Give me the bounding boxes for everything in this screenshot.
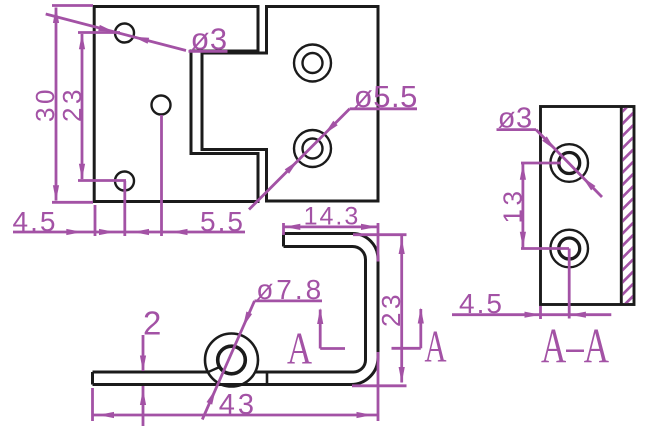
svg-text:5.5: 5.5: [200, 206, 245, 237]
section bottom hole outer: [550, 230, 588, 268]
profile left end cap: [91, 372, 94, 385]
dim 14.3 line: [284, 224, 378, 230]
dim 43 text: [219, 389, 257, 421]
dim 2 text: [143, 304, 161, 341]
dim 30 text: [30, 86, 60, 122]
profile flange end cap: [282, 234, 285, 247]
dim 13 text: [498, 188, 528, 224]
section arrow A right: [392, 308, 424, 349]
section arrow A left: [317, 308, 345, 349]
svg-text:23: 23: [57, 86, 87, 122]
dim 5.5 arrows: [133, 229, 188, 235]
dim 4.5 text: [13, 206, 58, 237]
dim 4.5 and 5.5 baseline: [13, 231, 245, 234]
section label A right: [425, 322, 447, 372]
dim 14.3 left extension: [282, 223, 285, 235]
dim 23 right text: [376, 291, 406, 327]
leaf 2 top countersunk hole inner: [303, 53, 323, 73]
leaf 1 bottom screw hole: [115, 172, 134, 191]
svg-text:4.5: 4.5: [13, 206, 58, 237]
dim 13 line: [520, 164, 526, 248]
svg-text:23: 23: [376, 291, 406, 327]
svg-text:4.5: 4.5: [459, 288, 504, 319]
svg-text:30: 30: [30, 86, 60, 122]
dim 2 lower line: [140, 386, 146, 426]
svg-text:14.3: 14.3: [304, 203, 361, 231]
profile outer surface: [93, 234, 379, 385]
dim 2 upper line: [140, 335, 146, 372]
dia 3 leader section: [536, 130, 602, 197]
dia 3 text section: [497, 102, 537, 134]
dim 23 right top extension: [353, 233, 407, 236]
dim 5.5 text: [200, 206, 245, 237]
dim 43 right extension: [377, 352, 380, 421]
knuckle outer circle: [205, 334, 258, 387]
svg-text:A: A: [287, 324, 312, 374]
svg-text:13: 13: [498, 188, 528, 224]
dia 3 text leaf1: [189, 22, 228, 57]
section plate outline: [541, 107, 635, 305]
dim 4.5 section baseline: [452, 313, 611, 316]
dim 23 top extension line: [78, 31, 120, 34]
profile strip top surface left: [93, 371, 208, 374]
svg-text:2: 2: [143, 304, 161, 341]
dim 23 right bottom extension: [352, 384, 407, 387]
hole extension for 4.5 section: [568, 249, 571, 319]
svg-text:A: A: [425, 322, 447, 372]
dim 30 top extension line: [52, 4, 93, 7]
section title A-A: [541, 318, 609, 374]
profile seam line: [266, 372, 269, 385]
leaf 2 bottom countersunk hole inner: [303, 139, 323, 159]
dim 4.5 arrows: [66, 229, 115, 235]
dia 7.8 text: [255, 274, 325, 305]
section bottom hole bore: [559, 238, 580, 259]
dim 4.5 section arrows: [525, 312, 586, 318]
dim 4.5 section text: [459, 288, 504, 319]
leaf 2 top countersunk hole outer: [294, 45, 331, 82]
section top hole outer: [550, 144, 588, 182]
dim 43 line: [93, 412, 378, 418]
middle hole extension for 5.5: [160, 115, 163, 236]
leaf 2 outline with knuckle tab: [202, 7, 378, 202]
dim 23 line: [79, 33, 85, 180]
leaf 1 top screw hole: [115, 24, 134, 43]
section label A left: [287, 324, 312, 374]
profile strip top surface right: [256, 247, 366, 373]
knuckle curl seam: [208, 368, 219, 373]
leaf 2 bottom countersunk hole outer: [294, 130, 331, 167]
svg-text:43: 43: [219, 389, 257, 421]
leaf1 left edge extension for 4.5: [94, 205, 97, 236]
dim 14.3 text: [304, 203, 361, 231]
section inner face line: [620, 107, 623, 305]
dim 14.3 right extension: [377, 223, 380, 262]
svg-text:A–A: A–A: [541, 318, 609, 374]
section hatching: [621, 99, 635, 320]
dia 5.5 leader: [249, 109, 350, 210]
dim 43 left extension: [91, 388, 94, 421]
dim 13 bottom extension: [521, 247, 569, 250]
dim 23 right line: [399, 236, 405, 383]
section top hole bore: [559, 153, 580, 174]
knuckle pin bore: [218, 346, 246, 374]
section left edge extension tick: [539, 306, 542, 319]
dim 13 top extension: [521, 162, 561, 165]
dim 23 text: [57, 86, 87, 122]
dia 5.5 text: [350, 79, 418, 114]
dia 7.8 leader: [202, 301, 254, 420]
dia 3 leader leaf1: [46, 14, 186, 51]
dim 30 bottom extension line: [52, 201, 93, 204]
leaf 1 middle screw hole: [152, 96, 171, 115]
dim 23 bottom extension line: [78, 179, 126, 182]
leaf 1 outline with knuckle notch: [94, 7, 258, 202]
dim 30 line: [53, 7, 59, 201]
hole extension for 4.5: [123, 181, 126, 236]
